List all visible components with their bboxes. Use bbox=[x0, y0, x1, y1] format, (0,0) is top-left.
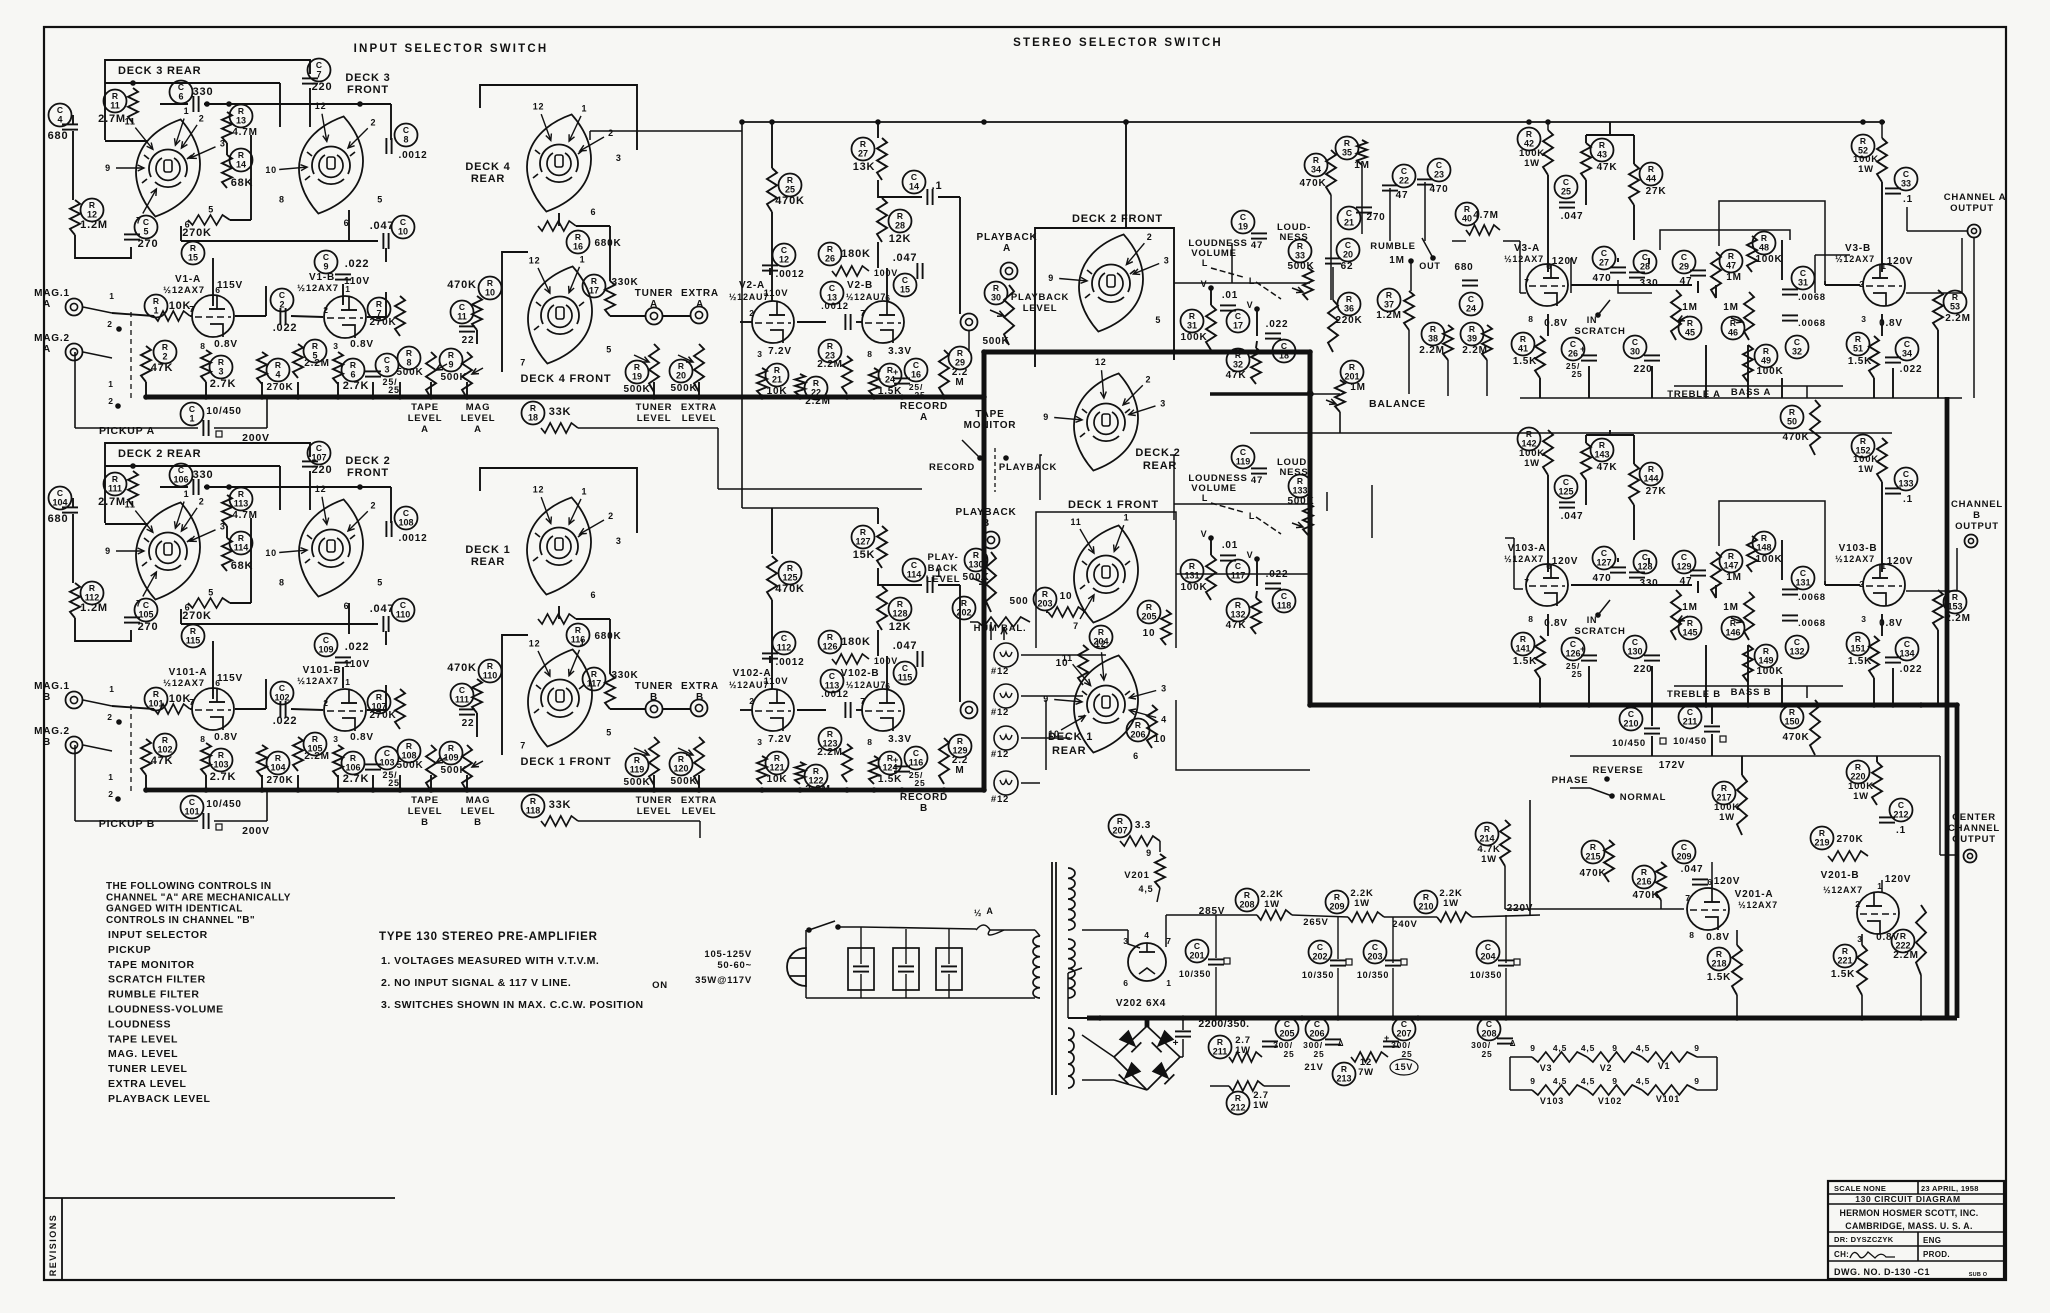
svg-text:21: 21 bbox=[772, 375, 782, 385]
resistor R111 bbox=[104, 473, 127, 496]
svg-text:RUMBLE FILTER: RUMBLE FILTER bbox=[108, 989, 200, 1001]
svg-text:C: C bbox=[57, 488, 63, 498]
resistor R7 270K bbox=[368, 298, 391, 321]
svg-text:500K: 500K bbox=[962, 572, 989, 583]
svg-text:.047: .047 bbox=[893, 640, 918, 652]
resistor R4 270K bbox=[267, 359, 290, 382]
svg-text:L: L bbox=[1202, 493, 1208, 503]
svg-text:213: 213 bbox=[1336, 1074, 1351, 1084]
pot R120 500K extra level bbox=[670, 753, 693, 776]
svg-text:1: 1 bbox=[153, 306, 158, 316]
svg-text:R: R bbox=[376, 299, 382, 309]
resistor R34 470K bbox=[1305, 154, 1328, 177]
resistor R32 47K bbox=[1227, 349, 1250, 372]
svg-text:31: 31 bbox=[1187, 321, 1197, 331]
svg-text:PHASE: PHASE bbox=[1552, 775, 1589, 786]
capacitor C128 330 bbox=[1634, 551, 1657, 574]
svg-text:R: R bbox=[1789, 707, 1795, 717]
svg-text:7: 7 bbox=[1073, 621, 1079, 631]
svg-text:R: R bbox=[1526, 129, 1532, 139]
svg-text:500: 500 bbox=[1009, 596, 1028, 607]
svg-text:103: 103 bbox=[379, 758, 394, 768]
tube V201-A half 12AX7 bbox=[1687, 888, 1729, 930]
svg-text:144: 144 bbox=[1643, 474, 1658, 484]
svg-text:220K: 220K bbox=[1335, 315, 1362, 326]
svg-text:208: 208 bbox=[1481, 1029, 1496, 1039]
svg-text:219: 219 bbox=[1814, 838, 1829, 848]
svg-text:1.5K: 1.5K bbox=[1848, 356, 1872, 367]
wire B+ feed to V102 rail bbox=[741, 122, 743, 508]
capacitor C113 .0012 bbox=[821, 670, 844, 693]
svg-text:C: C bbox=[1687, 707, 1693, 717]
svg-text:PICKUP A: PICKUP A bbox=[99, 425, 155, 437]
svg-text:105-125V: 105-125V bbox=[704, 949, 752, 960]
tube V1-B half 12AX7 bbox=[324, 296, 366, 338]
svg-text:C: C bbox=[1681, 842, 1687, 852]
svg-text:1.5K: 1.5K bbox=[1831, 969, 1855, 980]
resistor R27 13K bbox=[852, 138, 875, 161]
jack TUNER A bbox=[646, 308, 663, 325]
svg-text:470K: 470K bbox=[1632, 890, 1659, 901]
svg-text:R: R bbox=[827, 632, 833, 642]
svg-text:LEVEL: LEVEL bbox=[461, 806, 496, 817]
svg-text:C: C bbox=[384, 355, 390, 365]
svg-text:38: 38 bbox=[1428, 334, 1438, 344]
svg-text:10/450: 10/450 bbox=[206, 799, 241, 810]
svg-text:R: R bbox=[530, 403, 536, 413]
svg-text:R: R bbox=[1386, 290, 1392, 300]
svg-text:TAPE: TAPE bbox=[975, 409, 1004, 420]
svg-text:R: R bbox=[1599, 140, 1605, 150]
resistor R104 270K bbox=[267, 752, 290, 775]
svg-text:27K: 27K bbox=[1646, 486, 1667, 497]
svg-text:29: 29 bbox=[1679, 262, 1689, 272]
svg-text:34: 34 bbox=[1311, 165, 1321, 175]
svg-text:C: C bbox=[1904, 339, 1910, 349]
svg-text:OUT: OUT bbox=[1419, 261, 1440, 271]
wires V3 stage bbox=[1547, 475, 1549, 572]
wire record jack to bus bbox=[968, 331, 970, 352]
svg-text:2.7K: 2.7K bbox=[343, 773, 369, 785]
svg-text:C: C bbox=[902, 275, 908, 285]
resistor R125 470K bbox=[779, 562, 802, 585]
svg-text:½12AU7: ½12AU7 bbox=[846, 292, 886, 302]
wire 33K to playback riser A bbox=[578, 427, 718, 429]
svg-text:270K: 270K bbox=[369, 710, 396, 721]
svg-text:68K: 68K bbox=[231, 177, 254, 189]
resistor R40 4.7M bbox=[1456, 203, 1479, 226]
svg-text:MAG.2: MAG.2 bbox=[34, 726, 70, 737]
svg-text:4,5: 4,5 bbox=[1139, 884, 1154, 894]
svg-text:1M: 1M bbox=[1723, 602, 1739, 613]
svg-text:117: 117 bbox=[1231, 571, 1246, 581]
pilot lamp 4 bbox=[994, 771, 1018, 795]
svg-text:9: 9 bbox=[1694, 1076, 1700, 1086]
svg-text:C: C bbox=[1898, 800, 1904, 810]
svg-text:146: 146 bbox=[1725, 628, 1740, 638]
svg-text:1M: 1M bbox=[1723, 302, 1739, 313]
svg-text:C: C bbox=[403, 125, 409, 135]
svg-text:108: 108 bbox=[401, 751, 416, 761]
svg-text:R: R bbox=[961, 598, 967, 608]
svg-text:205: 205 bbox=[1141, 612, 1156, 622]
transformer core bbox=[1051, 862, 1053, 1095]
svg-text:10/350: 10/350 bbox=[1302, 970, 1334, 980]
svg-text:C: C bbox=[911, 560, 917, 570]
resistor R113 bbox=[230, 488, 253, 511]
svg-text:R: R bbox=[1235, 600, 1241, 610]
svg-text:A: A bbox=[1003, 243, 1011, 254]
svg-text:R: R bbox=[350, 753, 356, 763]
rotary switch DECK 3 FRONT bbox=[291, 110, 371, 219]
svg-text:½12AX7: ½12AX7 bbox=[297, 676, 339, 687]
svg-text:1: 1 bbox=[108, 379, 114, 389]
svg-text:V: V bbox=[1247, 550, 1254, 560]
svg-text:SCRATCH: SCRATCH bbox=[1574, 626, 1625, 637]
svg-text:R: R bbox=[487, 278, 493, 288]
svg-text:TYPE 130 STEREO PRE-AMPLIFI: TYPE 130 STEREO PRE-AMPLIFIER bbox=[379, 931, 598, 943]
svg-text:17: 17 bbox=[589, 286, 599, 296]
capacitor C23 470 bbox=[1428, 159, 1451, 182]
svg-text:CHANNEL: CHANNEL bbox=[1948, 823, 2000, 834]
svg-text:14: 14 bbox=[909, 182, 919, 192]
svg-text:C: C bbox=[189, 797, 195, 807]
svg-text:270K: 270K bbox=[266, 382, 293, 393]
svg-text:120V: 120V bbox=[1887, 556, 1914, 567]
svg-text:14: 14 bbox=[236, 160, 246, 170]
svg-text:C: C bbox=[1345, 240, 1351, 250]
svg-text:B: B bbox=[1973, 510, 1981, 521]
heavy bus channel B tone bottom bbox=[1310, 703, 1957, 708]
wire rail dots bbox=[741, 122, 743, 131]
svg-text:BALANCE: BALANCE bbox=[1369, 398, 1426, 410]
svg-text:9: 9 bbox=[448, 360, 453, 370]
svg-text:C: C bbox=[1284, 1019, 1290, 1029]
svg-text:1.2M: 1.2M bbox=[1376, 310, 1401, 321]
svg-text:1M: 1M bbox=[1682, 602, 1698, 613]
svg-text:50-60~: 50-60~ bbox=[717, 960, 752, 971]
svg-text:EXTRA: EXTRA bbox=[681, 681, 719, 692]
resistor R47 1M bbox=[1720, 250, 1743, 273]
svg-text:470: 470 bbox=[1592, 573, 1611, 584]
balance pot R201 bbox=[1341, 361, 1364, 384]
svg-text:R: R bbox=[1520, 334, 1526, 344]
svg-text:109: 109 bbox=[443, 753, 458, 763]
svg-text:EXTRA LEVEL: EXTRA LEVEL bbox=[108, 1078, 187, 1090]
svg-text:106: 106 bbox=[345, 763, 360, 773]
svg-text:DECK 1 FRONT: DECK 1 FRONT bbox=[521, 756, 612, 768]
svg-text:500K: 500K bbox=[670, 383, 697, 394]
svg-text:222: 222 bbox=[1895, 941, 1910, 951]
svg-text:221: 221 bbox=[1837, 956, 1852, 966]
svg-text:R: R bbox=[1484, 824, 1490, 834]
svg-text:R: R bbox=[1763, 646, 1769, 656]
svg-text:8: 8 bbox=[403, 135, 408, 145]
resistor R204 10 bbox=[1090, 626, 1113, 649]
resistor R15 270K bbox=[182, 242, 205, 265]
svg-text:2.2M: 2.2M bbox=[805, 784, 830, 795]
svg-text:10: 10 bbox=[265, 165, 277, 175]
resistor R129 2.2M bbox=[949, 735, 972, 758]
capacitor C21 270 bbox=[1338, 207, 1361, 230]
svg-text:126: 126 bbox=[822, 642, 837, 652]
svg-text:5: 5 bbox=[606, 344, 612, 354]
svg-text:9: 9 bbox=[105, 546, 111, 556]
svg-text:0.8V: 0.8V bbox=[214, 339, 238, 350]
svg-text:PLAYBACK: PLAYBACK bbox=[976, 232, 1037, 243]
svg-text:C: C bbox=[323, 635, 329, 645]
pot R108 500K tape level bbox=[398, 740, 421, 763]
svg-text:R: R bbox=[591, 276, 597, 286]
svg-text:R: R bbox=[1761, 533, 1767, 543]
wire V3A plate to tone bbox=[1547, 122, 1549, 130]
svg-text:40: 40 bbox=[1462, 214, 1472, 224]
svg-text:C: C bbox=[1642, 552, 1648, 562]
pot R133 500K loudness bbox=[1289, 475, 1312, 498]
svg-text:C: C bbox=[1800, 268, 1806, 278]
svg-text:FRONT: FRONT bbox=[347, 84, 389, 96]
svg-text:12K: 12K bbox=[889, 233, 912, 245]
svg-text:ENG: ENG bbox=[1923, 1236, 1941, 1245]
svg-text:R: R bbox=[487, 661, 493, 671]
svg-text:120V: 120V bbox=[1552, 556, 1579, 567]
resistor R1 10K bbox=[145, 295, 168, 318]
capacitor C206 300/25 bbox=[1306, 1018, 1329, 1041]
wire V103B out bbox=[1906, 590, 1957, 592]
svg-text:2: 2 bbox=[1859, 579, 1865, 589]
svg-text:R: R bbox=[1297, 476, 1303, 486]
svg-text:330K: 330K bbox=[611, 670, 638, 681]
heater chain wires bbox=[1510, 1056, 1532, 1058]
svg-text:31: 31 bbox=[1798, 278, 1808, 288]
svg-text:PROD.: PROD. bbox=[1923, 1250, 1950, 1259]
resistor R110 470K bbox=[479, 660, 502, 683]
svg-text:7.2V: 7.2V bbox=[768, 346, 792, 357]
svg-text:EXTRA: EXTRA bbox=[681, 288, 719, 299]
svg-text:1W: 1W bbox=[1719, 812, 1735, 823]
wires V3 stage bbox=[1547, 175, 1549, 272]
svg-text:10: 10 bbox=[485, 288, 495, 298]
resistor R102 47K bbox=[154, 734, 177, 757]
svg-text:2200/350.: 2200/350. bbox=[1198, 1018, 1249, 1030]
tube V201-B half 12AX7 bbox=[1857, 892, 1899, 934]
svg-text:VOLUME: VOLUME bbox=[1191, 483, 1236, 494]
svg-text:204: 204 bbox=[1093, 637, 1108, 647]
resistor R221 1.5K bbox=[1834, 945, 1857, 968]
svg-text:REAR: REAR bbox=[471, 556, 505, 568]
svg-text:L: L bbox=[1249, 511, 1255, 521]
svg-text:C: C bbox=[1570, 639, 1576, 649]
svg-text:INPUT SELECTOR: INPUT SELECTOR bbox=[108, 929, 208, 941]
svg-text:500K: 500K bbox=[623, 384, 650, 395]
capacitor C127 470 bbox=[1593, 547, 1616, 570]
svg-text:133: 133 bbox=[1898, 479, 1913, 489]
svg-text:1W: 1W bbox=[1443, 898, 1459, 909]
capacitor C108 bbox=[395, 507, 418, 530]
svg-text:R: R bbox=[1590, 842, 1596, 852]
svg-text:1: 1 bbox=[108, 772, 114, 782]
resistor R217 100K 1W bbox=[1713, 782, 1736, 805]
svg-text:R: R bbox=[448, 743, 454, 753]
svg-text:R: R bbox=[634, 362, 640, 372]
svg-text:12: 12 bbox=[529, 256, 541, 266]
resistor R28 12K bbox=[889, 210, 912, 233]
svg-text:R: R bbox=[448, 350, 454, 360]
rotary switch DECK 2 REAR (stereo) bbox=[1066, 367, 1146, 476]
svg-text:15V: 15V bbox=[1395, 1062, 1413, 1072]
power supply wires bbox=[1082, 929, 1128, 931]
capacitor C101 10/450 bbox=[181, 796, 204, 819]
svg-text:C: C bbox=[1632, 337, 1638, 347]
wire channel A tone return rail bbox=[1520, 397, 1962, 399]
svg-text:47: 47 bbox=[1251, 475, 1263, 486]
svg-text:A: A bbox=[43, 299, 51, 310]
svg-text:10/350: 10/350 bbox=[1470, 970, 1502, 980]
capacitor C28 330 bbox=[1634, 251, 1657, 274]
wires stereo selector bbox=[1046, 611, 1048, 613]
junction dots bus A bbox=[143, 394, 149, 400]
svg-text:LEVEL: LEVEL bbox=[682, 413, 717, 424]
svg-text:½12AX7: ½12AX7 bbox=[1504, 254, 1544, 264]
svg-text:330K: 330K bbox=[611, 277, 638, 288]
svg-text:680: 680 bbox=[1454, 262, 1473, 273]
svg-text:330: 330 bbox=[193, 86, 214, 98]
capacitor C103 25/25 bbox=[376, 747, 399, 770]
svg-text:0.8V: 0.8V bbox=[350, 339, 374, 350]
svg-text:6: 6 bbox=[350, 370, 355, 380]
svg-text:STEREO SELECTOR SWITCH: STEREO SELECTOR SWITCH bbox=[1013, 37, 1223, 49]
svg-text:3.3V: 3.3V bbox=[888, 346, 912, 357]
svg-text:2.2M: 2.2M bbox=[1945, 613, 1970, 624]
svg-text:R: R bbox=[1469, 324, 1475, 334]
rotary switch DECK 4 FRONT bbox=[520, 260, 600, 369]
svg-text:R: R bbox=[162, 342, 168, 352]
heavy bus vertical record A to record B bbox=[982, 352, 987, 790]
wires loudness bbox=[1210, 288, 1212, 305]
capacitor C134 .022 bbox=[1896, 638, 1919, 661]
svg-text:R: R bbox=[1464, 204, 1470, 214]
svg-text:8: 8 bbox=[200, 341, 206, 351]
svg-text:7: 7 bbox=[1685, 893, 1691, 903]
svg-text:R: R bbox=[860, 527, 866, 537]
svg-text:6: 6 bbox=[215, 285, 221, 295]
capacitor C207 300/25 bbox=[1393, 1018, 1416, 1041]
svg-text:216: 216 bbox=[1636, 877, 1651, 887]
svg-text:50: 50 bbox=[1787, 417, 1797, 427]
svg-text:R: R bbox=[1135, 720, 1141, 730]
svg-text:R: R bbox=[1430, 324, 1436, 334]
svg-text:204: 204 bbox=[1480, 952, 1495, 962]
svg-text:V103: V103 bbox=[1540, 1096, 1564, 1106]
resistor R53 2.2M bbox=[1944, 291, 1967, 314]
svg-text:46: 46 bbox=[1728, 328, 1738, 338]
svg-text:23: 23 bbox=[1434, 170, 1444, 180]
capacitor C126 25/25 bbox=[1562, 638, 1585, 661]
svg-text:1M: 1M bbox=[1726, 572, 1742, 583]
svg-text:SUB O: SUB O bbox=[1969, 1272, 1988, 1278]
svg-text:V103-B: V103-B bbox=[1839, 543, 1878, 554]
svg-text:CHANNEL A: CHANNEL A bbox=[1944, 192, 2007, 203]
svg-text:149: 149 bbox=[1758, 656, 1773, 666]
svg-text:CH:: CH: bbox=[1834, 1250, 1849, 1259]
svg-text:LEVEL: LEVEL bbox=[637, 413, 672, 424]
capacitor C109 bbox=[315, 634, 338, 657]
svg-text:15K: 15K bbox=[853, 549, 876, 561]
resistor R50 470K bbox=[1781, 406, 1804, 429]
svg-text:PICKUP: PICKUP bbox=[108, 944, 151, 956]
svg-text:R: R bbox=[1297, 241, 1303, 251]
jack EXTRA B bbox=[691, 700, 708, 717]
tube V101-B half 12AX7 bbox=[324, 689, 366, 731]
svg-text:R: R bbox=[787, 175, 793, 185]
svg-text:½12AX7: ½12AX7 bbox=[297, 283, 339, 294]
resistor R107 270K bbox=[368, 691, 391, 714]
svg-text:7: 7 bbox=[1166, 936, 1172, 946]
svg-text:R: R bbox=[1189, 311, 1195, 321]
svg-text:47K: 47K bbox=[1597, 462, 1618, 473]
svg-text:10/350: 10/350 bbox=[1179, 969, 1211, 979]
jack EXTRA A bbox=[691, 307, 708, 324]
resistor R151 1.5K bbox=[1847, 633, 1870, 656]
svg-text:108: 108 bbox=[398, 518, 413, 528]
svg-text:R: R bbox=[787, 563, 793, 573]
svg-text:129: 129 bbox=[952, 746, 967, 756]
svg-text:2.2M: 2.2M bbox=[304, 751, 329, 762]
svg-text:1.5K: 1.5K bbox=[1513, 356, 1537, 367]
svg-text:12: 12 bbox=[87, 210, 97, 220]
svg-text:16: 16 bbox=[573, 242, 583, 252]
svg-text:9: 9 bbox=[1694, 1043, 1700, 1053]
svg-text:R: R bbox=[973, 550, 979, 560]
svg-text:13: 13 bbox=[236, 116, 246, 126]
tube V103-A half 12AX7 bbox=[1526, 564, 1568, 606]
svg-text:131: 131 bbox=[1184, 571, 1199, 581]
svg-text:470K: 470K bbox=[1299, 178, 1326, 189]
tube V101-A half 12AX7 bbox=[192, 688, 234, 730]
svg-text:104: 104 bbox=[270, 763, 285, 773]
svg-text:7: 7 bbox=[520, 740, 526, 750]
svg-text:MAG: MAG bbox=[466, 402, 491, 413]
pickup selector dashed bbox=[130, 312, 132, 400]
svg-text:R: R bbox=[376, 692, 382, 702]
svg-text:470: 470 bbox=[1592, 273, 1611, 284]
svg-text:148: 148 bbox=[1756, 543, 1771, 553]
svg-text:7: 7 bbox=[1524, 577, 1530, 587]
svg-text:R: R bbox=[1313, 155, 1319, 165]
svg-text:120V: 120V bbox=[1885, 874, 1912, 885]
svg-text:C: C bbox=[1317, 942, 1323, 952]
resistor R219 270K bbox=[1811, 827, 1834, 850]
svg-text:470K: 470K bbox=[447, 662, 477, 674]
pot R9 500K mag level bbox=[440, 349, 463, 372]
svg-text:1: 1 bbox=[184, 489, 190, 499]
top B+ rail bbox=[742, 121, 1885, 123]
heavy bus record B bbox=[147, 788, 984, 793]
svg-text:2.7K: 2.7K bbox=[343, 380, 369, 392]
wire tone stack frame bbox=[1719, 501, 1825, 581]
svg-text:LEVEL: LEVEL bbox=[637, 806, 672, 817]
svg-text:3: 3 bbox=[384, 365, 389, 375]
line filter capacitor box 1 bbox=[848, 948, 874, 990]
pot R146 bass 1M bbox=[1722, 617, 1745, 640]
svg-text:R: R bbox=[238, 489, 244, 499]
svg-text:R: R bbox=[1117, 816, 1123, 826]
resistor R220 100K 1W bbox=[1847, 761, 1870, 784]
svg-text:200V: 200V bbox=[242, 825, 270, 837]
pot R8 500K tape level bbox=[398, 347, 421, 370]
resistor R115 270K bbox=[182, 625, 205, 648]
svg-text:202: 202 bbox=[1312, 952, 1327, 962]
